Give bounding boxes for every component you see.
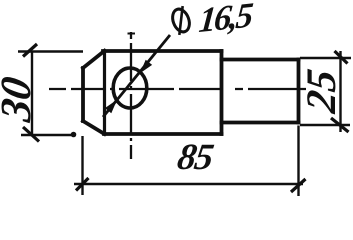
dimension 85: extension lines [83,126,299,197]
svg-text:16,5: 16,5 [197,0,254,40]
dimension 25: top tick [335,51,348,64]
shaft outline [222,60,299,123]
head facet line [103,51,106,134]
centerline end tick [128,33,136,35]
dimension 85: dimension line [74,183,303,185]
head outline [83,51,222,134]
dimension 25: dimension line [339,51,341,132]
dimension 85: left tick [76,178,89,191]
dimension 25: extension lines [300,58,351,125]
diameter symbol [169,6,193,36]
dimension 30: top tick [23,44,37,57]
dimension 30: bottom tick [23,127,39,142]
dimension 30: extension lines [18,52,83,136]
vertical centerline [130,32,132,159]
hole circle [113,68,147,108]
dimension 30: blob at extension end [71,132,77,138]
dimension 85: right tick [291,179,306,192]
svg-text:30: 30 [0,73,40,125]
svg-text:25: 25 [298,66,345,116]
leader arrow lower [106,101,116,113]
dimension 30: dimension line [31,52,33,135]
leader arrow upper [141,61,151,73]
dimension 25: bottom tick [331,118,349,132]
horizontal centerline [49,88,306,90]
leader line of diameter [103,35,170,117]
